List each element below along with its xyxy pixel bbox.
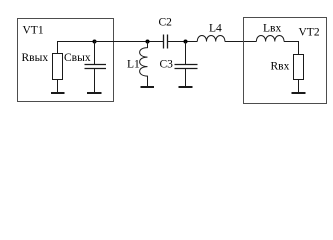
wire main segment from L4 to Lвх: [225, 41, 257, 43]
label Cвых: [64, 52, 91, 64]
label VT1: [23, 25, 44, 37]
svg-text:C2: C2: [159, 17, 173, 29]
svg-text:L1: L1: [127, 59, 140, 71]
svg-text:C3: C3: [160, 59, 174, 71]
transistor stage box VT2: [244, 18, 327, 104]
inductor Lвх: [256, 36, 284, 42]
inductor L4: [197, 36, 225, 42]
svg-text:VT2: VT2: [299, 27, 320, 39]
ground Cвых: [87, 92, 102, 94]
label Rвых: [22, 52, 49, 64]
wire capacitor Cвых bottom lead: [94, 69, 96, 93]
label Rвх: [271, 61, 290, 73]
wire resistor Rвх bottom lead: [298, 80, 300, 93]
transistor stage box VT1: [18, 19, 114, 102]
inductor L1: [140, 42, 148, 87]
svg-text:VT1: VT1: [23, 25, 44, 37]
wire capacitor Cвых top lead: [94, 42, 96, 66]
svg-text:Lвх: Lвх: [263, 23, 281, 35]
svg-text:L4: L4: [209, 23, 222, 35]
svg-text:Rвх: Rвх: [271, 61, 290, 73]
wire main segment from C2 right plate to L4: [168, 41, 198, 43]
wire from Lвх to Rвх top corner: [284, 42, 299, 56]
svg-text:Rвых: Rвых: [22, 52, 49, 64]
label L1: [127, 59, 140, 71]
ground Rвх: [292, 92, 306, 94]
label C3: [160, 59, 174, 71]
ground L1: [141, 86, 155, 88]
capacitor C3: [175, 65, 198, 69]
node B junction dot: [146, 40, 150, 44]
wire capacitor C3 top lead: [185, 42, 187, 66]
resistor Rвых: [53, 54, 63, 80]
capacitor C2: [164, 35, 168, 49]
node C junction dot: [184, 40, 188, 44]
ground Rвых: [51, 92, 65, 94]
node A junction dot: [93, 40, 97, 44]
label Lвх: [263, 23, 281, 35]
label C2: [159, 17, 173, 29]
label VT2: [299, 27, 320, 39]
resistor Rвх: [294, 55, 304, 80]
wire capacitor C3 bottom lead: [185, 69, 187, 87]
wire resistor Rвых bottom lead: [57, 80, 59, 93]
capacitor Cвых: [85, 65, 107, 69]
wire main segment from Rвых to node A: [57, 41, 95, 43]
wire main segment from node A to C2 left plate: [95, 41, 164, 43]
wire resistor Rвых top lead: [57, 42, 59, 54]
svg-text:Свых: Свых: [64, 52, 91, 64]
label L4: [209, 23, 222, 35]
ground C3: [179, 86, 193, 88]
